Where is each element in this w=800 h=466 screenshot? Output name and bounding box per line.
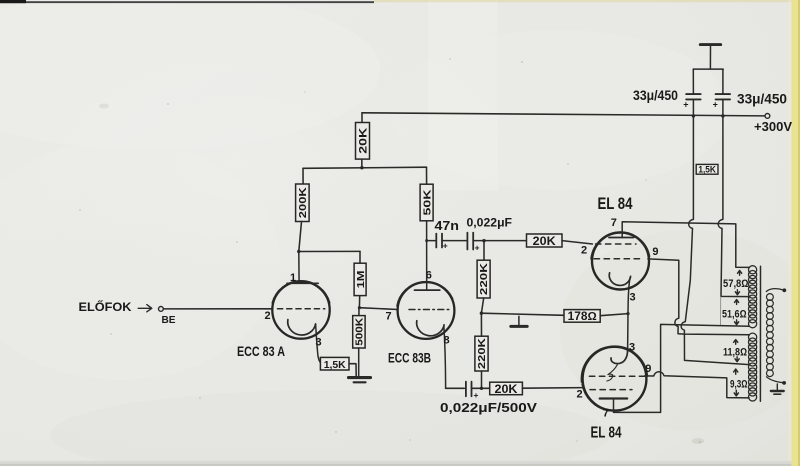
svg-text:ECC 83B: ECC 83B xyxy=(388,351,431,366)
wire EL84 cathode bus (pin3 to pin3) xyxy=(628,277,631,352)
node ECC83B anode / cap branch xyxy=(425,239,428,242)
arrow up 9,3 xyxy=(734,369,738,374)
wire 20K to EL84 lower grid xyxy=(522,387,583,390)
svg-text:0,022μF: 0,022μF xyxy=(467,215,513,229)
resistor 200K (ECC83A anode load) xyxy=(302,168,304,184)
resistor 178R xyxy=(564,310,600,323)
resistor 1M xyxy=(359,251,361,263)
node B+ left cap junction xyxy=(692,114,695,117)
triode ECC83A envelope xyxy=(272,281,329,338)
arrow up 11,8 xyxy=(734,340,738,345)
wire ECC83A cathode lead xyxy=(316,324,321,363)
capacitor C-right 33u/450 xyxy=(722,69,724,93)
wire faint rail stub xyxy=(720,297,722,325)
wire anode to 1M xyxy=(299,250,360,252)
transformer primary winding 9,3 section xyxy=(749,363,757,371)
svg-text:1M: 1M xyxy=(355,270,367,288)
paper specks xyxy=(79,58,701,443)
wire ECC83B cathode to cap xyxy=(446,387,465,389)
terminal secondary bottom xyxy=(782,381,786,385)
svg-text:7: 7 xyxy=(386,311,392,323)
triode ECC83B envelope xyxy=(398,282,455,339)
photo right yellow edge xyxy=(792,0,800,466)
svg-text:7: 7 xyxy=(603,408,609,420)
arrow down 57,8 xyxy=(735,290,739,295)
wire EL84 lower anode to transformer tap (up the middle) xyxy=(614,324,750,412)
svg-text:20K: 20K xyxy=(533,236,557,248)
svg-text:220K: 220K xyxy=(479,262,490,295)
transformer primary winding 57,8 section xyxy=(749,266,757,274)
arrow down 51,6 xyxy=(735,320,739,325)
svg-text:57,8Ω: 57,8Ω xyxy=(723,278,749,290)
svg-text:0,022μF/500V: 0,022μF/500V xyxy=(440,401,538,415)
ECC83A anode plate xyxy=(287,282,318,284)
svg-text:11,8Ω: 11,8Ω xyxy=(723,346,747,358)
wire cap to 20K xyxy=(473,240,526,242)
svg-text:47n: 47n xyxy=(435,219,460,233)
svg-text:EL 84: EL 84 xyxy=(598,195,634,213)
svg-text:+: + xyxy=(475,242,480,252)
svg-text:3: 3 xyxy=(316,337,322,349)
EL84 upper anode plate xyxy=(609,237,634,239)
svg-text:+: + xyxy=(713,100,719,110)
photo bottom edge xyxy=(0,461,792,466)
pentode EL84 lower envelope xyxy=(583,347,647,411)
node grid divider junction xyxy=(358,306,361,309)
resistor 220K (lower) xyxy=(480,313,482,336)
svg-text:2: 2 xyxy=(265,310,271,322)
svg-text:20K: 20K xyxy=(357,128,369,154)
EL84 upper cathode xyxy=(609,273,630,286)
chassis terminal symbol (top) xyxy=(700,43,720,46)
ECC83A grid (dashed) xyxy=(278,308,325,310)
svg-text:+300V: +300V xyxy=(754,119,792,134)
wire EL84 upper pin9 to transformer tap (with hop) xyxy=(648,259,750,335)
wire cap top tie bar xyxy=(693,68,723,70)
pentode EL84 upper envelope xyxy=(592,233,649,290)
svg-text:3: 3 xyxy=(630,292,636,304)
wire 20K to EL84 upper grid xyxy=(562,241,592,244)
arrow down 9,3 xyxy=(734,390,738,396)
capacitor 0,022uF/500V xyxy=(465,382,467,397)
wire input to ECC83A grid xyxy=(163,308,272,310)
resistor 20K (upper grid stopper) xyxy=(527,234,563,247)
transformer primary winding 51,6 section xyxy=(749,295,757,303)
svg-text:51,6Ω: 51,6Ω xyxy=(722,308,747,320)
node lower coupling junction xyxy=(480,387,483,390)
svg-text:178Ω: 178Ω xyxy=(568,311,597,323)
svg-text:ELŐFOK: ELŐFOK xyxy=(79,299,132,314)
arrow down 11,8 xyxy=(735,357,739,362)
transformer primary winding 11,8 section xyxy=(749,333,757,341)
svg-text:EL 84: EL 84 xyxy=(591,425,622,442)
EL84 lower grids (dashed) xyxy=(589,375,644,377)
node phase splitter center xyxy=(480,312,483,315)
wire cap to 20K lower xyxy=(472,387,490,389)
svg-text:200K: 200K xyxy=(297,187,309,219)
wire EL84 upper anode to transformer top tap xyxy=(622,222,749,268)
ECC83B anode plate xyxy=(415,289,440,291)
node supply rail junction xyxy=(360,166,363,169)
svg-text:3: 3 xyxy=(629,342,635,354)
wire between coupling caps xyxy=(442,240,467,242)
photo top edge xyxy=(0,1,374,3)
node ECC83A anode xyxy=(297,250,300,253)
wire ECC83B cathode lead down xyxy=(444,327,446,389)
resistor 220K (upper) xyxy=(483,241,485,261)
svg-text:9: 9 xyxy=(645,363,651,375)
terminal +300V xyxy=(765,114,770,119)
svg-text:+: + xyxy=(474,390,479,400)
wire divider to ECC83B grid xyxy=(359,308,398,310)
svg-text:BE: BE xyxy=(162,314,176,326)
EL84 upper grids (dashed) xyxy=(596,243,637,245)
resistor 500K xyxy=(358,308,360,316)
svg-text:220K: 220K xyxy=(477,337,488,369)
resistor 20K (supply dropper) xyxy=(361,113,363,123)
ground (secondary) xyxy=(776,384,778,391)
svg-text:9: 9 xyxy=(652,246,658,258)
svg-text:500K: 500K xyxy=(354,318,365,346)
svg-text:1,5K: 1,5K xyxy=(324,359,346,371)
wire node to 178R xyxy=(481,313,564,315)
ECC83B cathode xyxy=(417,321,444,336)
svg-text:2: 2 xyxy=(581,245,587,257)
svg-text:33μ/450: 33μ/450 xyxy=(633,87,678,103)
resistor 1,5K (ECC83A cathode) xyxy=(320,357,349,370)
svg-text:9,3Ω: 9,3Ω xyxy=(730,378,748,390)
wire ECC83A anode lead xyxy=(298,252,300,284)
transformer secondary winding xyxy=(766,289,783,292)
wire right supply rail (with crossover hop) xyxy=(718,116,748,297)
svg-text:+: + xyxy=(443,240,448,250)
node 220K tap (upper) xyxy=(482,239,485,242)
svg-text:+: + xyxy=(683,100,689,110)
wire left supply rail (with crossover hop) xyxy=(681,116,749,365)
capacitor C-left 33u/450 xyxy=(692,69,694,93)
capacitor 47n xyxy=(427,240,435,242)
input arrow xyxy=(138,305,152,312)
ground (center tap) xyxy=(518,316,520,325)
node B+ right cap junction xyxy=(721,114,724,117)
transformer core xyxy=(759,266,761,401)
ECC83A cathode xyxy=(288,320,316,335)
svg-text:1: 1 xyxy=(290,272,296,284)
terminal BE input xyxy=(159,307,164,312)
EL84 lower anode plate xyxy=(600,397,628,399)
resistor 50K (ECC83B anode load) xyxy=(426,167,428,184)
resistor 1,5K (rail bridge) xyxy=(696,164,718,174)
resistor 20K (lower grid stopper) xyxy=(490,382,523,395)
EL84 lower cathode hook xyxy=(611,349,628,364)
ground (ECC83A cathode / divider) xyxy=(349,376,371,379)
svg-text:50K: 50K xyxy=(421,189,433,216)
terminal secondary top xyxy=(782,288,786,292)
svg-text:20K: 20K xyxy=(495,384,519,396)
svg-text:8: 8 xyxy=(444,335,450,347)
arrow up 51,6 xyxy=(735,300,739,305)
wire EL84 lower pin9 to transformer bottom (with hop) xyxy=(645,372,750,398)
wire anode supply rail xyxy=(303,167,427,168)
svg-text:7: 7 xyxy=(611,217,617,229)
node cathode bus xyxy=(626,312,629,315)
wire 178R to cathode bus xyxy=(600,314,628,316)
svg-text:ECC 83 A: ECC 83 A xyxy=(237,344,285,360)
arrow up 57,8 xyxy=(738,270,742,275)
svg-text:33μ/450: 33μ/450 xyxy=(737,90,787,106)
EL84 lower grid squiggle xyxy=(607,365,618,381)
svg-text:2: 2 xyxy=(577,389,583,401)
ECC83B grid (dash-dot) xyxy=(409,309,451,311)
capacitor 0,022uF xyxy=(466,233,468,250)
svg-text:1,5K: 1,5K xyxy=(698,164,716,174)
wire B+ horizontal rail to +300V terminal xyxy=(362,113,765,116)
